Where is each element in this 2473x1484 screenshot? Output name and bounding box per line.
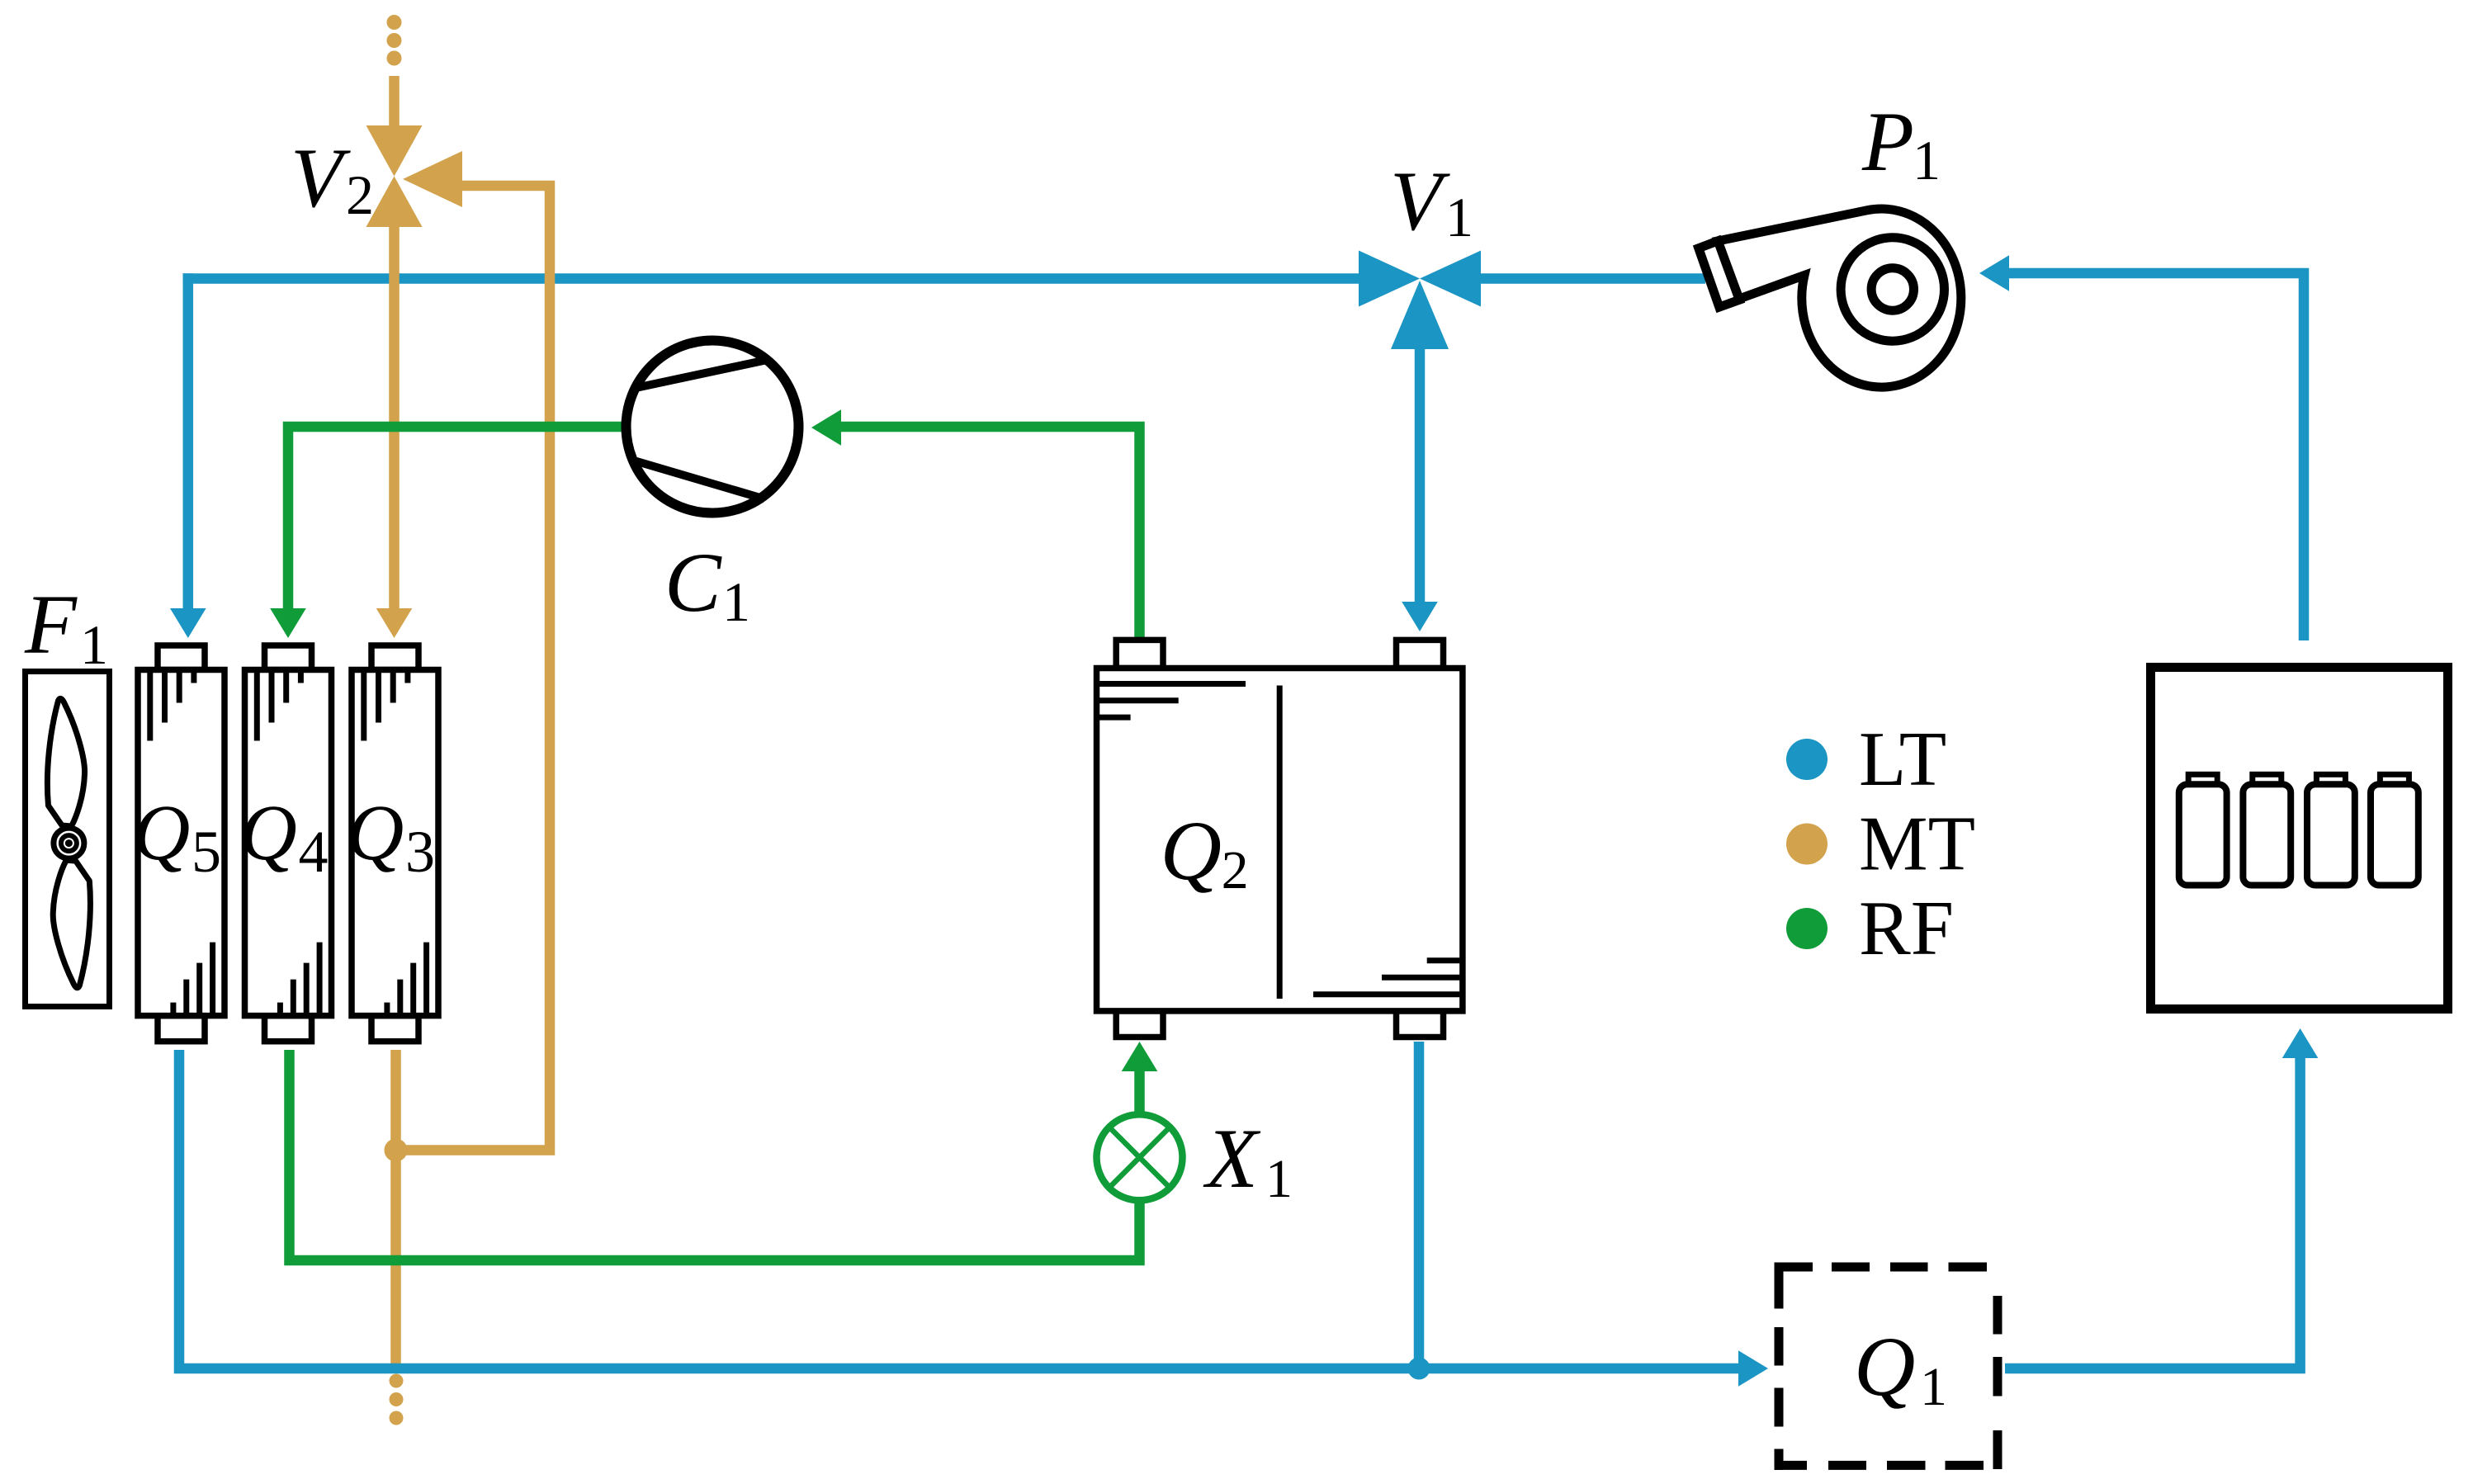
heat exchanger Q3: [352, 645, 438, 1042]
wire: LT main supply line (top horizontal): [183, 273, 1362, 284]
battery cell 3: [2316, 774, 2345, 784]
wire: RF liquid line from Q4 through X1 into Q2: [290, 1042, 1158, 1260]
wire: MT supply continuation dots (top): [387, 15, 402, 30]
wire: MT return continuation dots (bottom): [390, 1374, 404, 1388]
legend: MT dot: [1786, 824, 1828, 865]
compressor C1: [627, 341, 799, 513]
node: LT junction at Q2 return: [1408, 1358, 1430, 1380]
wire: MT supply stub into V2: [389, 76, 400, 128]
heat exchanger Q4: [245, 645, 332, 1042]
svg-text:2: 2: [1222, 840, 1249, 900]
wire: LT from Q1 up into battery box: [2005, 1028, 2318, 1368]
svg-text:5: 5: [192, 819, 221, 885]
legend: LT dot: [1786, 739, 1828, 780]
pump P1: [1699, 209, 1961, 387]
load Q1 (dashed box): [1775, 1263, 1998, 1470]
svg-text:Q: Q: [240, 788, 297, 877]
wire: LT from Q2 bottom to main return: [1414, 1042, 1425, 1368]
svg-text:Q: Q: [133, 788, 190, 877]
svg-text:1: 1: [80, 613, 108, 676]
battery cell 4: [2380, 774, 2409, 784]
valve V1 (3-way, LT): [1359, 251, 1481, 350]
svg-text:F: F: [24, 578, 78, 672]
svg-text:Q: Q: [1161, 804, 1222, 898]
svg-text:LT: LT: [1859, 716, 1946, 802]
svg-text:3: 3: [405, 819, 435, 885]
svg-text:1: 1: [1265, 1149, 1293, 1209]
svg-text:X: X: [1203, 1112, 1261, 1206]
svg-text:1: 1: [1445, 186, 1473, 248]
wire: MT from Q3 bottom to off-page: [390, 1050, 401, 1373]
wire: LT from V1 to pump P1: [1479, 273, 1705, 284]
svg-text:MT: MT: [1859, 801, 1975, 887]
node: MT junction below Q3: [385, 1139, 408, 1162]
svg-text:2: 2: [346, 163, 374, 226]
battery box: [2151, 668, 2448, 1009]
svg-text:V: V: [291, 131, 351, 225]
wire: MT recirculation branch from Q3 outlet back up to V2: [396, 186, 551, 1151]
wire: MT from V2 down into Q3: [376, 224, 413, 638]
svg-text:1: 1: [722, 570, 750, 633]
svg-text:4: 4: [299, 819, 329, 885]
svg-text:Q: Q: [347, 788, 404, 877]
svg-text:RF: RF: [1859, 886, 1954, 971]
battery cell 2: [2253, 774, 2281, 784]
wire: LT between V1 and Q2 (bidirectional arrows): [1402, 347, 1438, 631]
legend: RF dot: [1786, 908, 1828, 949]
wire: LT return from battery to pump P1: [1979, 255, 2304, 640]
valve V2 (3-way, MT): [366, 125, 463, 227]
wire: LT bottom return line to Q1: [179, 1050, 1768, 1387]
heat exchanger Q5: [138, 645, 225, 1042]
wire: RF suction from Q2 to C1: [811, 409, 1140, 640]
svg-text:Q: Q: [1854, 1320, 1915, 1414]
fan F1: [26, 672, 110, 1007]
wire: RF discharge from C1 to Q4: [270, 427, 626, 638]
svg-text:1: 1: [1913, 129, 1941, 191]
svg-text:P: P: [1861, 95, 1914, 189]
battery cell 1: [2188, 774, 2217, 784]
svg-text:1: 1: [1920, 1357, 1947, 1417]
svg-text:V: V: [1390, 154, 1450, 248]
expansion valve X1: [1097, 1114, 1183, 1200]
heat exchanger Q2: [1097, 640, 1463, 1037]
wire: LT drop to Q5: [170, 273, 206, 638]
svg-text:C: C: [664, 536, 722, 630]
